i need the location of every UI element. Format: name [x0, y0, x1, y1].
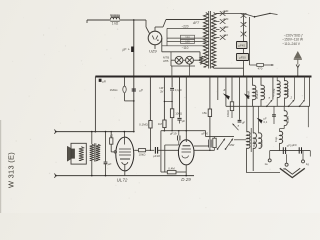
svg-text:0,4M: 0,4M: [168, 166, 175, 170]
wire corner down: [145, 20, 147, 27]
transformer core: [208, 11, 210, 69]
svg-text:UZ9: UZ9: [149, 49, 157, 54]
selector box 150: [181, 35, 195, 39]
wire drop x239: [239, 77, 241, 120]
trimmer arrow below rail: [257, 118, 263, 124]
svg-text:W 313 (E): W 313 (E): [7, 152, 16, 188]
tap wire 110V: [162, 45, 205, 47]
bus junction: [294, 76, 296, 78]
grid leak drop: [164, 145, 166, 172]
transformer top lead 1: [91, 132, 93, 145]
UL72 grid dashes: [119, 149, 131, 155]
bus junction: [209, 76, 211, 78]
IF coil L1b: [261, 85, 265, 99]
wire to ground rail: [247, 172, 281, 174]
svg-text:10kΩ: 10kΩ: [175, 111, 183, 115]
bus junction: [304, 76, 306, 78]
speaker basket frame: [71, 143, 86, 164]
feedback coil L6a: [253, 133, 256, 149]
speaker field coil zigzag: [79, 147, 84, 161]
output terminal top: [54, 130, 55, 134]
capacitor block 1: [237, 42, 248, 49]
svg-text:µF19: µF19: [170, 131, 177, 135]
svg-text:µF̅: µF̅: [139, 89, 143, 93]
capacitor C5: [170, 88, 174, 90]
trimmer arrow on osc feed: [244, 94, 250, 100]
wire speaker top lead: [56, 131, 134, 133]
resistor R9 anode load: [213, 138, 216, 147]
bus junction: [309, 76, 311, 78]
svg-text:125: 125: [185, 40, 190, 44]
svg-text:~220: ~220: [222, 17, 229, 21]
bus junction: [201, 76, 203, 78]
tap wire 220V: [167, 27, 205, 29]
output transformer core: [94, 143, 96, 161]
svg-text:Rück: Rück: [260, 140, 264, 147]
wire drop x105: [105, 132, 107, 162]
wire drop x225: [225, 77, 227, 107]
right horizontal rail: [226, 105, 310, 107]
tap wire 150V: [167, 37, 205, 39]
wire drop x272: [272, 77, 274, 100]
resistor R7: [170, 109, 173, 118]
grid wire corner down: [205, 131, 207, 137]
terminal La: [268, 159, 271, 162]
svg-text:µF: µF: [242, 121, 246, 125]
wire band switch row: [206, 136, 234, 138]
lamp row top wire: [162, 51, 200, 53]
wire drop to D29 grid: [185, 77, 187, 131]
svg-text:470: 470: [258, 66, 263, 70]
bus junction: [284, 76, 286, 78]
D29 cathode lead: [185, 165, 187, 172]
scan speckle texture (decorative): [104, 34, 105, 35]
bus junction: [150, 76, 152, 78]
output tube UL72 envelope: [116, 137, 134, 171]
cap chain x179: [179, 77, 181, 118]
choke L1 with value label: [111, 17, 120, 19]
wire to resistor R3: [250, 64, 257, 66]
svg-text:~220: ~220: [181, 25, 188, 29]
terminal E: [302, 160, 305, 163]
wire drop x294: [293, 77, 295, 100]
bus junction: [252, 76, 254, 78]
wire top rail to node: [120, 19, 134, 21]
svg-text:An 18: An 18: [286, 89, 290, 97]
svg-text:~110: ~110: [182, 46, 189, 50]
svg-text:10kΩ: 10kΩ: [139, 153, 147, 157]
wire drop x217: [217, 77, 219, 101]
wire drop x304: [304, 77, 306, 100]
lamp row bottom wire: [171, 65, 195, 67]
magic eye tube UZ9 (indicator): [148, 31, 162, 45]
wire coil to bottom: [252, 148, 254, 171]
bus junction: [297, 76, 299, 78]
band switch blade 2: [226, 139, 234, 150]
svg-text:Bandf.: Bandf.: [247, 90, 251, 99]
oscillator coil L5: [247, 132, 251, 149]
tap wire 125V: [167, 41, 205, 43]
bottom ground rail: [56, 175, 194, 177]
bus left end drop: [94, 77, 96, 132]
bus junction: [272, 76, 274, 78]
svg-text:µF: µF: [123, 48, 128, 52]
svg-text:UL72: UL72: [117, 178, 128, 183]
UL72 anode lead: [123, 132, 125, 145]
mains transformer Tr1 secondary winding: [211, 13, 216, 68]
bus junction: [171, 76, 173, 78]
grid capacitor C6: [178, 136, 180, 141]
svg-text:2k′: 2k′: [160, 89, 164, 93]
wire drop x133.8 to output stage: [133, 20, 135, 132]
osc coil core line: [250, 128, 252, 152]
svg-text:~150: ~150: [222, 25, 229, 29]
svg-text:ATB: ATB: [163, 59, 168, 63]
svg-text:a: a: [269, 97, 271, 100]
svg-text:4 Wdg: 4 Wdg: [272, 88, 276, 97]
top rail end stub: [86, 20, 88, 23]
transformer bottom lead: [91, 161, 93, 176]
small capacitor blob at bus end: [99, 79, 102, 82]
bus junction: [164, 76, 166, 78]
lamp row wire: [171, 59, 175, 61]
IF coil L1a: [253, 85, 257, 99]
resistor R11 oval on x124.5: [124, 77, 126, 87]
svg-text:a: a: [224, 88, 226, 92]
loudspeaker cone: [67, 146, 71, 161]
bus junction: [239, 76, 241, 78]
feedback coil L6b: [259, 133, 262, 149]
wire to magic eye corner: [134, 19, 146, 21]
chassis ground symbol: [280, 168, 305, 177]
wire to osc coil: [234, 139, 247, 141]
bus junction: [225, 76, 227, 78]
mains switch blade: [255, 14, 270, 17]
switch blade S1: [267, 100, 273, 107]
svg-text:~240: ~240: [222, 9, 229, 13]
wire grid coupling: [134, 149, 138, 151]
D29 grid lead: [185, 131, 187, 142]
band switch blade 1: [218, 139, 226, 150]
D29 anode wire: [194, 145, 209, 147]
svg-text:µF: µF: [182, 119, 186, 123]
svg-text:1g: 1g: [306, 162, 310, 166]
wire top rail left: [87, 19, 111, 21]
terminal N: [285, 163, 288, 166]
svg-text:2: 2: [290, 96, 293, 100]
UL72 cathode: [122, 162, 128, 164]
bus junction: [179, 76, 181, 78]
wire to D29 grid: [161, 130, 206, 132]
svg-text:~110–240 V: ~110–240 V: [282, 42, 300, 46]
secondary tap ~150: [216, 29, 220, 31]
secondary tap ~240: [216, 13, 220, 15]
wire transformer bottom to block: [214, 67, 244, 69]
resistor R4: [110, 138, 113, 144]
resistor R5 grid stopper: [139, 149, 146, 152]
dial lamp La1: [175, 56, 183, 64]
lamp2 drop: [189, 64, 191, 76]
output terminal bottom: [54, 174, 55, 178]
svg-text:µF̸: µF̸: [102, 80, 106, 84]
svg-text:AF7: AF7: [192, 21, 199, 25]
bus junction: [260, 76, 262, 78]
detector tube D29 envelope: [178, 140, 194, 165]
D29 grid dashes: [182, 149, 192, 152]
arrow lead right: [269, 64, 274, 66]
wire drop x253: [252, 106, 254, 133]
wire block to bus: [243, 61, 245, 77]
capacitor block 2: [237, 54, 249, 61]
switch blade S3: [300, 100, 305, 107]
svg-text:~110: ~110: [222, 33, 229, 37]
wire transformer to selector: [216, 13, 244, 15]
capacitor C10: [299, 147, 301, 153]
resistor R6a 0,1M: [149, 121, 152, 129]
svg-text:D 29: D 29: [181, 177, 191, 182]
svg-text:15k: 15k: [202, 111, 207, 115]
wire drop x160 to rail: [160, 131, 162, 172]
trimmer arrow a: [223, 93, 230, 100]
series capacitor C11 on x133.8: [132, 89, 136, 91]
svg-text:1M: 1M: [158, 122, 163, 126]
svg-text:1 kΩ: 1 kΩ: [112, 22, 119, 26]
UL72 cathode lead: [124, 164, 126, 175]
wire to mains transformer top: [166, 19, 205, 21]
svg-text:1MΩσ: 1MΩσ: [110, 88, 118, 92]
capacitor C13: [238, 120, 242, 122]
electrolytic capacitor C1 +uF: [131, 47, 134, 53]
right edge drop: [309, 77, 311, 107]
svg-text:0,1: 0,1: [264, 120, 268, 124]
junction top: [133, 19, 135, 21]
coupling capacitor C4: [155, 147, 157, 154]
resistor R8 grid leak: [167, 171, 176, 174]
selector left bus: [166, 28, 168, 45]
svg-text:µF: µF: [108, 162, 112, 166]
secondary tap ~110: [216, 37, 220, 39]
eye pin top: [154, 27, 156, 31]
bus junction: [276, 76, 278, 78]
wire drop x164: [163, 77, 165, 121]
mains plug arrow: [294, 51, 302, 59]
UL72 grid pin left: [114, 151, 116, 153]
svg-text:Kop.: Kop.: [274, 136, 278, 142]
wire selector to switch: [244, 14, 254, 17]
bus junction: [133, 76, 135, 78]
svg-text:µF18: µF18: [153, 154, 160, 158]
svg-text:µF45: µF45: [238, 43, 245, 47]
wire link y101 left: [125, 100, 134, 102]
svg-text:+: +: [128, 48, 131, 52]
bus junction: [189, 76, 191, 78]
svg-text:a: a: [238, 124, 240, 128]
svg-text:0,1MΩ: 0,1MΩ: [139, 122, 148, 126]
resistor R2 small zigzag by transformer: [200, 56, 203, 64]
svg-text:Ana16: Ana16: [255, 90, 259, 99]
capacitor C8: [272, 115, 276, 117]
svg-text:µF50: µF50: [239, 55, 246, 59]
svg-text:µF0: µF0: [292, 143, 297, 147]
resistor R10: [230, 102, 233, 111]
svg-text:µ2: µ2: [110, 134, 114, 138]
bus junction: [246, 76, 248, 78]
switch contact dot: [254, 16, 256, 18]
bus junction: [243, 76, 245, 78]
wire drop x150: [149, 77, 151, 121]
resistor R3 470: [257, 63, 264, 66]
bus junction: [185, 76, 187, 78]
wire link y101: [164, 101, 172, 103]
svg-text:10kΩ: 10kΩ: [226, 109, 230, 117]
main HT bus wire: [95, 76, 311, 78]
antenna coil L3: [284, 81, 287, 98]
switch blade S2: [289, 100, 295, 107]
wire drop x232: [231, 77, 233, 102]
osc coil bottom lead: [246, 148, 248, 173]
dial lamp La2: [186, 56, 194, 64]
eye pin bottom: [154, 45, 156, 49]
wire drop to osc coil: [246, 77, 248, 133]
secondary tap ~220: [216, 21, 220, 23]
wire drop x111: [110, 132, 112, 138]
svg-text:µF50: µF50: [202, 132, 209, 136]
wire detector rail: [270, 150, 311, 152]
output transformer Tr2 winding 2: [96, 144, 100, 160]
capacitor C7: [209, 140, 211, 148]
lamp row right wire: [199, 52, 201, 60]
eye pin right drop: [161, 38, 163, 52]
svg-text:An45: An45: [286, 116, 290, 123]
wire drop x172: [171, 77, 173, 88]
output transformer Tr2 winding 1: [90, 144, 94, 160]
lamp1 drop: [171, 66, 173, 77]
mains transformer Tr1 primary winding: [204, 13, 209, 68]
wire right drop: [249, 17, 251, 65]
coil L4: [284, 111, 287, 126]
tap selector x-arrows: [241, 13, 247, 18]
svg-text:MW: MW: [230, 143, 235, 147]
coupling coil L7: [280, 131, 283, 143]
wire drop x258: [258, 106, 260, 133]
resistor R6b 1M: [163, 120, 166, 128]
antenna coil L2: [277, 81, 280, 98]
bus junction: [217, 76, 219, 78]
capacitor C3: [104, 162, 108, 164]
bus junction: [124, 76, 126, 78]
bus junction: [231, 76, 233, 78]
svg-text:0,1µF: 0,1µF: [175, 88, 182, 92]
right edge below rail: [307, 106, 309, 127]
capacitor C9: [283, 147, 285, 154]
voltage selector wire: [243, 14, 245, 42]
wire switch out: [270, 13, 278, 14]
trimmer arrow b: [233, 124, 239, 131]
resistor R12 15k from bus: [209, 77, 211, 110]
svg-text:1a: 1a: [265, 162, 269, 166]
loudspeaker magnet bar: [71, 149, 75, 159]
scan edge shading: [0, 120, 1, 213]
